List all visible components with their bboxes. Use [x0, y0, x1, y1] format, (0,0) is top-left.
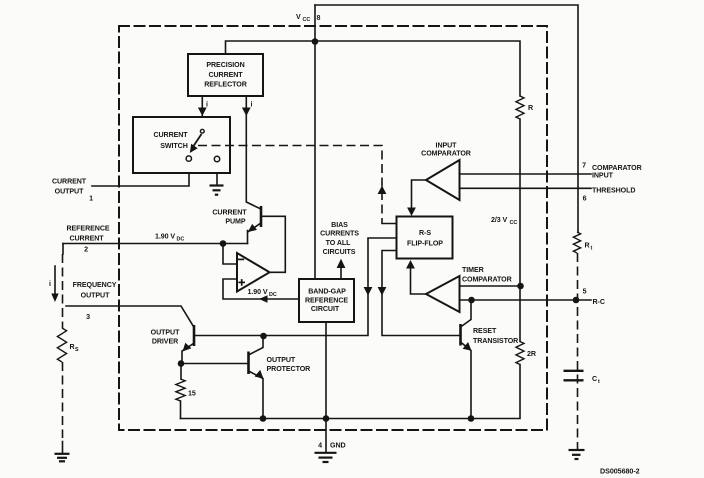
svg-text:6: 6 [583, 195, 587, 203]
svg-text:t: t [598, 379, 600, 385]
svg-text:R: R [70, 343, 75, 351]
svg-text:1.90 V: 1.90 V [248, 288, 268, 296]
svg-text:DC: DC [269, 292, 277, 298]
svg-text:INPUT: INPUT [592, 172, 614, 180]
svg-text:CURRENT: CURRENT [212, 209, 247, 217]
svg-text:FREQUENCY: FREQUENCY [73, 281, 117, 289]
svg-text:OUTPUT: OUTPUT [267, 356, 296, 364]
svg-text:PROTECTOR: PROTECTOR [267, 365, 311, 373]
svg-text:CURRENT: CURRENT [52, 178, 87, 186]
svg-text:DC: DC [177, 237, 185, 243]
svg-text:4: 4 [318, 442, 322, 450]
svg-text:CURRENT: CURRENT [208, 71, 243, 79]
svg-text:RESET: RESET [473, 327, 497, 335]
svg-text:i: i [49, 280, 51, 288]
svg-text:OUTPUT: OUTPUT [81, 292, 110, 300]
svg-text:OUTPUT: OUTPUT [151, 328, 180, 336]
svg-text:CURRENTS: CURRENTS [320, 230, 359, 238]
svg-text:REFLECTOR: REFLECTOR [204, 80, 247, 88]
svg-text:2: 2 [84, 246, 88, 254]
svg-text:2/3 V: 2/3 V [491, 216, 508, 224]
svg-text:3: 3 [86, 313, 90, 321]
svg-text:1: 1 [89, 195, 93, 203]
svg-text:V: V [296, 13, 301, 21]
svg-text:COMPARATOR: COMPARATOR [421, 150, 471, 158]
svg-text:PUMP: PUMP [225, 218, 246, 226]
svg-text:THRESHOLD: THRESHOLD [592, 187, 635, 195]
svg-text:t: t [591, 246, 593, 252]
svg-text:S: S [75, 347, 79, 353]
svg-text:CURRENT: CURRENT [153, 131, 188, 139]
svg-text:CC: CC [510, 220, 518, 226]
svg-text:i: i [206, 101, 208, 109]
svg-text:DS005680-2: DS005680-2 [600, 467, 640, 476]
svg-text:8: 8 [317, 14, 321, 22]
svg-text:REFERENCE: REFERENCE [305, 296, 348, 304]
svg-text:5: 5 [583, 288, 587, 296]
svg-text:SWITCH: SWITCH [160, 142, 188, 150]
svg-text:1.90 V: 1.90 V [155, 233, 175, 241]
svg-text:CURRENT: CURRENT [69, 235, 104, 243]
svg-text:C: C [592, 375, 597, 383]
svg-text:INPUT: INPUT [436, 142, 458, 150]
svg-text:TO ALL: TO ALL [326, 239, 351, 247]
svg-text:CIRCUIT: CIRCUIT [311, 305, 340, 313]
svg-text:CC: CC [303, 17, 311, 23]
svg-text:2R: 2R [527, 350, 536, 358]
svg-text:DRIVER: DRIVER [152, 338, 178, 346]
svg-text:i: i [251, 101, 253, 109]
svg-text:FLIP-FLOP: FLIP-FLOP [407, 239, 443, 247]
svg-text:7: 7 [582, 162, 586, 170]
svg-text:CIRCUITS: CIRCUITS [323, 248, 356, 256]
svg-text:BIAS: BIAS [331, 221, 348, 229]
svg-text:GND: GND [330, 442, 346, 450]
svg-text:R: R [528, 104, 533, 112]
svg-text:R-C: R-C [593, 298, 605, 306]
svg-text:COMPARATOR: COMPARATOR [462, 276, 512, 284]
svg-text:R-S: R-S [419, 229, 431, 237]
svg-text:PRECISION: PRECISION [206, 61, 244, 69]
svg-text:R: R [585, 242, 590, 250]
svg-text:TRANSISTOR: TRANSISTOR [473, 337, 518, 345]
svg-text:REFERENCE: REFERENCE [66, 225, 109, 233]
svg-text:BAND-GAP: BAND-GAP [308, 288, 346, 296]
svg-text:OUTPUT: OUTPUT [55, 188, 84, 196]
svg-text:TIMER: TIMER [462, 266, 484, 274]
svg-text:15: 15 [188, 390, 196, 398]
